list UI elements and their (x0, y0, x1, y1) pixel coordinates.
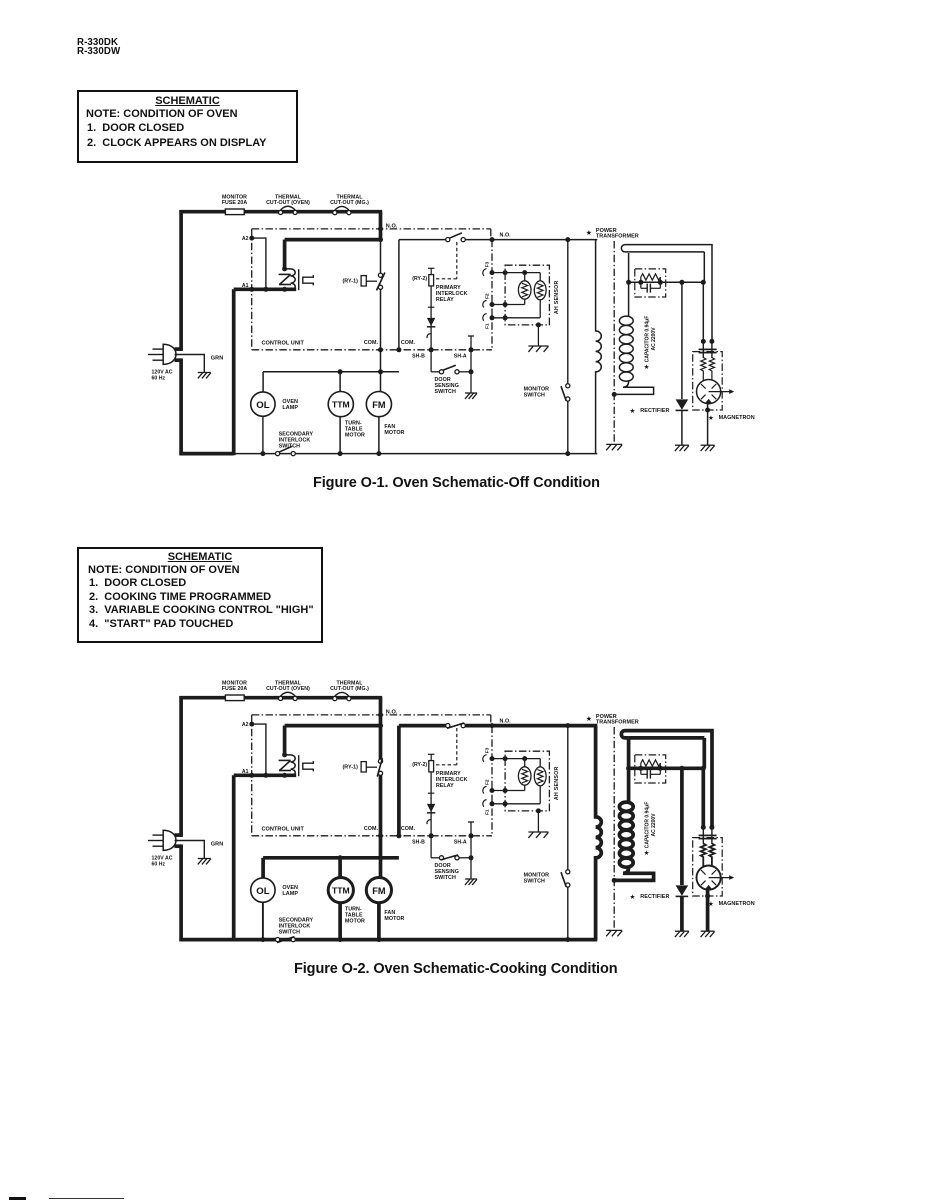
node sensor ground tap (536, 808, 541, 813)
wire rectifier branch (680, 768, 684, 885)
control unit boundary top edge (252, 715, 491, 726)
label (RY-2) (412, 762, 427, 768)
node sensor box F3 (503, 270, 508, 275)
svg-text:(RY-2): (RY-2) (412, 762, 427, 768)
svg-text:TRANSFORMER: TRANSFORMER (596, 720, 639, 726)
label PRIMARY INTERLOCK RELAY (436, 771, 468, 789)
node filament terminal left (701, 825, 706, 830)
node HV winding cold end on core line (612, 878, 617, 883)
AC plug 120V AC 60Hz (148, 344, 176, 364)
label F3 (485, 261, 491, 267)
fan motor FM (366, 878, 391, 903)
wire RY-2 branch riser (397, 726, 401, 836)
node fan motor on supply row (378, 855, 383, 860)
wire A1 row (234, 287, 297, 291)
node sensor box F2 (503, 302, 508, 307)
label MONITOR FUSE 20A (222, 681, 248, 693)
label SH-B (412, 354, 425, 360)
svg-text:N.O.: N.O. (386, 223, 398, 229)
label AH SENSOR (554, 766, 560, 800)
node at control unit top edge (378, 226, 383, 231)
node A1 (249, 773, 254, 778)
svg-text:SWITCH: SWITCH (435, 389, 456, 395)
wire relay feed row (285, 238, 381, 242)
node SH-B (429, 833, 434, 838)
HV capacitor element (641, 282, 661, 292)
svg-text:CUT-OUT (MG.): CUT-OUT (MG.) (330, 686, 369, 692)
node magnetron cathode (705, 408, 710, 413)
wire A1 row (234, 773, 297, 777)
sensor heater element 1 (518, 281, 531, 299)
bleeder resistor in capacitor (641, 274, 661, 283)
svg-text:★: ★ (644, 363, 650, 371)
svg-text:N.O.: N.O. (386, 709, 398, 715)
node fan motor on bottom rail (376, 937, 381, 942)
wire turn-table motor drop (339, 372, 341, 392)
door sensing switch (439, 365, 471, 374)
transformer core line (613, 241, 615, 443)
wire HV capacitor row (629, 766, 704, 770)
label THERMAL CUT-OUT (MG) (330, 681, 369, 693)
svg-text:COM.: COM. (401, 340, 416, 346)
node sensor box F2 (503, 788, 508, 793)
label CONTROL UNIT (262, 827, 305, 833)
wire RY-1 contact drop to COM (380, 240, 382, 372)
label GRN (211, 841, 223, 847)
svg-text:TTM: TTM (332, 400, 350, 410)
transformer HV secondary winding (614, 316, 653, 394)
node rectifier tap (679, 280, 684, 285)
label GRN (211, 355, 223, 361)
svg-text:F1: F1 (485, 809, 491, 815)
wire bottom rail left section (179, 452, 233, 456)
node F3 (490, 270, 495, 275)
svg-text:MOTOR: MOTOR (384, 916, 404, 922)
sensor heater element 1 (518, 767, 531, 785)
wire drop from top feed to relay row (379, 212, 383, 242)
svg-text:RECTIFIER: RECTIFIER (640, 894, 669, 900)
filament feed-through capacitors (699, 341, 717, 358)
label MONITOR SWITCH (524, 386, 550, 398)
node at relay feed row (378, 723, 383, 728)
AH sensor boundary box (505, 751, 549, 811)
oven lamp OL (251, 878, 275, 902)
relay coil RY-2 (428, 268, 434, 286)
wire bottom rail main section (234, 938, 598, 942)
label FAN MOTOR (384, 910, 404, 922)
relay armature contact symbol (303, 761, 314, 771)
svg-text:RELAY: RELAY (436, 297, 454, 303)
wire N.O. row to transformer (492, 239, 597, 241)
transformer primary winding (596, 240, 602, 454)
ground symbol door sensing switch (465, 393, 477, 399)
thermal cut-out (MG) (333, 206, 351, 214)
SH-A stub terminal (468, 822, 474, 836)
node fan motor on supply row (378, 369, 383, 374)
svg-text:A2: A2 (242, 722, 249, 728)
wire magnetron to ground (707, 404, 709, 445)
label OVEN LAMP (282, 399, 298, 411)
filament winding loop (621, 731, 712, 828)
svg-text:A2: A2 (242, 236, 249, 242)
label COM. right (401, 340, 416, 346)
thermal cut-out (oven) (279, 692, 298, 700)
node COM control unit (378, 833, 383, 838)
node sensor ground tap (536, 322, 541, 327)
svg-text:★: ★ (586, 715, 592, 723)
ground symbol rectifier (675, 445, 689, 451)
wire heater 1 return to F2 (492, 299, 525, 304)
svg-text:COM.: COM. (364, 340, 379, 346)
node RY-2 branch on COM row (396, 347, 401, 352)
oven schematic O-1 off condition (148, 195, 755, 457)
node HV winding cold end on core line (612, 392, 617, 397)
ground symbol transformer core (606, 444, 622, 450)
svg-text:120V AC: 120V AC (152, 369, 173, 375)
svg-text:SH-B: SH-B (412, 354, 425, 360)
node capacitor lead right (658, 766, 663, 771)
wire RY-1 contact drop to COM (379, 726, 383, 858)
svg-text:★: ★ (586, 229, 592, 237)
wire door sensing switch branch (431, 836, 440, 858)
label F2 (485, 293, 491, 299)
svg-text:SWITCH: SWITCH (279, 443, 300, 449)
ground symbol AH sensor (528, 346, 548, 352)
svg-text:SWITCH: SWITCH (435, 875, 456, 881)
wire oven lamp to bottom rail (262, 416, 264, 453)
wire turn-table motor drop (338, 858, 342, 878)
svg-text:F3: F3 (485, 261, 491, 267)
svg-text:LAMP: LAMP (282, 891, 298, 897)
label N.O. upper (386, 223, 398, 229)
node HV capacitor row left (626, 766, 631, 771)
svg-text:F1: F1 (485, 323, 491, 329)
wire sensor ground lead (537, 811, 539, 832)
wire left return riser (232, 775, 236, 941)
node turn-table motor on supply row (338, 369, 343, 374)
node A2 wire junction on A1 row (263, 773, 268, 778)
svg-text:TRANSFORMER: TRANSFORMER (596, 234, 639, 240)
control unit boundary left edge (251, 715, 253, 836)
label POWER TRANSFORMER (586, 714, 639, 726)
bleeder resistor in capacitor (641, 760, 661, 769)
note box: cooking condition (77, 547, 323, 643)
wire motor supply row (263, 371, 399, 373)
wire heater 1 return to F2 (492, 785, 525, 790)
svg-text:FM: FM (372, 400, 386, 410)
svg-text:F2: F2 (485, 293, 491, 299)
wire HV capacitor row (629, 281, 704, 283)
relay armature contact symbol (303, 275, 314, 285)
model numbers R-330DK / R-330DW (77, 38, 120, 57)
node at control unit top edge (378, 712, 383, 717)
fan motor FM (366, 392, 391, 417)
node heater 1 top (522, 756, 527, 761)
wire turn-table motor to bottom rail (338, 903, 342, 940)
svg-text:60 Hz: 60 Hz (152, 862, 166, 868)
wire monitor switch branch (567, 726, 569, 940)
scan artifact marks at page bottom (9, 1197, 26, 1200)
node N.O. to power transformer (490, 723, 495, 728)
label COM. right (401, 826, 416, 832)
label POWER TRANSFORMER (586, 228, 639, 240)
label MAGNETRON (708, 900, 755, 908)
svg-text:SH-A: SH-A (454, 840, 467, 846)
node relay coil bottom on A1 row (282, 773, 287, 778)
node magnetron cathode (705, 894, 710, 899)
wire oven lamp drop (261, 858, 265, 878)
svg-text:60 Hz: 60 Hz (152, 376, 166, 382)
label SH-B (412, 840, 425, 846)
wire bottom rail main section (234, 453, 598, 455)
svg-text:CUT-OUT (MG.): CUT-OUT (MG.) (330, 200, 369, 206)
label SECONDARY INTERLOCK SWITCH (279, 431, 314, 449)
label A1 (242, 769, 249, 775)
wire RY-2 coil to COM row (430, 286, 432, 350)
node monitor switch on bottom rail (565, 937, 570, 942)
svg-text:N.O.: N.O. (500, 719, 512, 725)
node at relay feed row (378, 237, 383, 242)
label SH-A (454, 354, 467, 360)
magnetron tube (697, 380, 735, 404)
wire motor supply row (263, 856, 399, 860)
svg-text:★: ★ (630, 407, 636, 415)
label DOOR SENSING SWITCH (435, 377, 459, 395)
node SH-A (469, 347, 474, 352)
caption figure O-2 (294, 961, 618, 977)
label N.O. lower (500, 233, 512, 239)
relay contact RY-1 (342, 762, 377, 772)
SH-B hook contact (427, 820, 431, 825)
ground symbol rectifier (675, 931, 689, 937)
node capacitor lead right (658, 280, 663, 285)
svg-text:SWITCH: SWITCH (524, 392, 545, 398)
label CONTROL UNIT (262, 341, 305, 347)
svg-text:SWITCH: SWITCH (524, 878, 545, 884)
door sensing switch (439, 855, 471, 860)
svg-text:OL: OL (256, 886, 269, 897)
svg-text:LAMP: LAMP (282, 405, 298, 411)
wire rectifier to ground (681, 410, 683, 445)
svg-text:SH-A: SH-A (454, 354, 467, 360)
node filament terminal left (701, 339, 706, 344)
svg-text:FUSE 20A: FUSE 20A (222, 200, 248, 206)
node COM control unit (378, 347, 383, 352)
svg-text:SH-B: SH-B (412, 840, 425, 846)
svg-text:CUT-OUT (OVEN): CUT-OUT (OVEN) (266, 200, 310, 206)
wire F3 into sensor (492, 758, 540, 760)
label F1 (485, 809, 491, 815)
wire oven lamp drop (262, 372, 264, 392)
filament choke right (709, 844, 714, 868)
RY-1 contact points (377, 758, 382, 777)
label CAPACITOR 0.94uF AC 2200V (644, 316, 657, 371)
node filament terminal right (709, 339, 714, 344)
svg-text:FUSE 20A: FUSE 20A (222, 686, 248, 692)
ground lead GRN (175, 841, 205, 859)
wire HV winding hot end riser (628, 253, 630, 316)
wire door switch ground riser (470, 836, 472, 879)
wire door switch ground riser (470, 350, 472, 393)
wire filament lead left (702, 282, 704, 341)
wire A2 to A1 row (252, 724, 266, 775)
node RY-2 branch on COM row (396, 833, 401, 838)
AH sensor boundary box (505, 265, 549, 325)
svg-text:CONTROL UNIT: CONTROL UNIT (262, 341, 305, 347)
ground symbol door sensing switch (465, 879, 477, 885)
magnetron boundary box (693, 838, 723, 896)
terminal hook F2 (483, 300, 487, 307)
terminal hook F3 (483, 269, 487, 276)
svg-text:RECTIFIER: RECTIFIER (640, 408, 669, 414)
filament choke left (701, 844, 706, 868)
filament winding loop (621, 245, 712, 342)
svg-text:F3: F3 (485, 747, 491, 753)
node capacitor lead left (638, 766, 643, 771)
ground symbol magnetron (701, 931, 715, 937)
node sensor box F1 (503, 801, 508, 806)
node A2 (249, 236, 254, 241)
oven schematic O-2 cooking condition (148, 681, 755, 943)
transformer primary winding (596, 726, 602, 940)
svg-text:GRN: GRN (211, 355, 223, 361)
control unit boundary top edge (252, 229, 491, 240)
label A2 (242, 236, 249, 242)
wire top feed line (179, 210, 382, 214)
node filament terminal right (709, 825, 714, 830)
turn-table motor TTM (328, 878, 353, 903)
wire left riser (neutral) down to bottom rail (179, 359, 183, 456)
label MAGNETRON (708, 414, 755, 422)
relay contact RY-2 points (446, 723, 466, 728)
node capacitor row to filament (701, 766, 706, 771)
control unit boundary bottom edge / COM row (252, 349, 492, 351)
caption figure O-1 (313, 475, 600, 491)
svg-text:★: ★ (630, 893, 636, 901)
monitor switch (561, 384, 570, 401)
node oven lamp on bottom rail (260, 937, 265, 942)
ground symbol AH sensor (528, 832, 548, 838)
secondary interlock switch (276, 937, 296, 943)
svg-text:MAGNETRON: MAGNETRON (719, 415, 755, 421)
filament choke right (709, 358, 714, 382)
wire sensor ground lead (537, 325, 539, 346)
node heater 1 top (522, 270, 527, 275)
node F1 (490, 801, 495, 806)
filament feed-through capacitors (699, 827, 717, 844)
wire RY-2 branch riser (398, 240, 400, 350)
wire top feed line (179, 696, 382, 700)
label SH-A (454, 840, 467, 846)
label 120V AC 60 Hz (152, 855, 173, 867)
node SH-A (469, 833, 474, 838)
svg-text:SWITCH: SWITCH (279, 929, 300, 935)
monitor switch (561, 870, 570, 887)
wire fan motor to bottom rail (378, 417, 380, 454)
wire HV winding hot end riser (627, 739, 631, 802)
wire RY-2 contact feed (399, 724, 492, 728)
svg-text:120V AC: 120V AC (152, 855, 173, 861)
magnetron tube (697, 866, 735, 890)
node capacitor lead left (638, 280, 643, 285)
node sensor box F3 (503, 756, 508, 761)
label COM. left (364, 826, 379, 832)
label RECTIFIER (630, 407, 670, 415)
oven lamp OL (251, 392, 275, 416)
HV capacitor element (641, 768, 661, 778)
node SH-B (429, 347, 434, 352)
svg-text:CAPACITOR 0.94μF: CAPACITOR 0.94μF (645, 316, 651, 363)
wire RY-2 contact feed (399, 239, 492, 241)
wire heater 2 feed (539, 273, 541, 282)
node A2 (249, 722, 254, 727)
magnetron boundary box (693, 352, 723, 410)
label 120V AC 60 Hz (152, 369, 173, 381)
HV capacitor boundary box (635, 269, 666, 297)
AC plug 120V AC 60Hz (148, 830, 176, 850)
svg-text:(RY-1): (RY-1) (342, 765, 358, 771)
ground symbol magnetron (701, 445, 715, 451)
filament choke left (701, 358, 706, 382)
label F3 (485, 747, 491, 753)
wire turn-table motor to bottom rail (339, 417, 341, 454)
relay contact RY-1 (342, 276, 377, 286)
label N.O. lower (500, 719, 512, 725)
sensor heater element 2 (534, 281, 546, 300)
svg-text:COM.: COM. (401, 826, 416, 832)
svg-text:(RY-2): (RY-2) (412, 276, 427, 282)
svg-text:GRN: GRN (211, 841, 223, 847)
node HV capacitor row left (626, 280, 631, 285)
wire RY-2 coil to COM row (430, 772, 432, 836)
monitor fuse 20A (225, 209, 244, 215)
svg-text:FM: FM (372, 886, 386, 896)
node turn-table motor on supply row (338, 855, 343, 860)
node relay coil top (282, 266, 287, 271)
wire plug neutral lead (175, 844, 183, 848)
control unit boundary left edge (251, 229, 253, 350)
terminal hook F2 (483, 786, 487, 793)
node rectifier tap (679, 766, 684, 771)
node F3 (490, 756, 495, 761)
node monitor switch tap (565, 723, 570, 728)
RY-1 contact points (377, 273, 385, 291)
terminal hook F3 (483, 755, 487, 762)
SH-B hook contact (427, 334, 431, 339)
relay contact RY-2 points (446, 233, 466, 242)
ground lead GRN (175, 355, 205, 373)
diode D1 in RY-2 branch (427, 793, 435, 813)
wire heater 1 feed (524, 273, 526, 282)
label TURN-TABLE MOTOR (345, 421, 365, 439)
label MONITOR SWITCH (524, 872, 550, 884)
label SECONDARY INTERLOCK SWITCH (279, 917, 314, 935)
label THERMAL CUT-OUT (OVEN) (266, 681, 310, 693)
label (RY-2) (412, 276, 427, 282)
label THERMAL CUT-OUT (MG) (330, 195, 369, 207)
wire bottom rail left section (179, 938, 233, 942)
wire fan motor drop (379, 858, 383, 878)
monitor fuse 20A (225, 695, 244, 701)
node A1 (249, 287, 254, 292)
svg-text:AC 2200V: AC 2200V (651, 813, 657, 837)
wire left riser (hot) up to top feed (179, 696, 183, 837)
label F1 (485, 323, 491, 329)
wire fan motor drop (380, 372, 382, 392)
wire drop to relay coil (283, 726, 287, 756)
svg-text:TTM: TTM (332, 886, 350, 896)
node turn-table motor on bottom rail (338, 937, 343, 942)
